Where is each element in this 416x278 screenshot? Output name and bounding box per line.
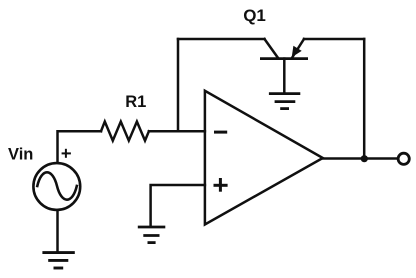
voltage source Vin xyxy=(33,163,80,210)
wire output xyxy=(323,157,397,160)
wire Vin bottom xyxy=(56,210,59,252)
transistor Q1 xyxy=(260,39,308,59)
svg-text:R1: R1 xyxy=(125,93,146,111)
wire top right from Q1 xyxy=(304,38,364,41)
svg-text:Q1: Q1 xyxy=(243,6,266,25)
wire resistor to op-amp inverting input xyxy=(149,130,205,133)
resistor R1 xyxy=(101,122,149,141)
inverting input minus symbol xyxy=(214,131,227,134)
junction dot at output node xyxy=(361,155,368,162)
wire non-inverting input to ground xyxy=(151,185,205,226)
wire feedback vertical xyxy=(177,39,180,131)
wire right vertical feedback xyxy=(363,39,366,159)
ground at Q1 base xyxy=(269,94,300,109)
ground at non-inverting input xyxy=(138,227,166,243)
non-inverting input plus symbol xyxy=(214,178,228,192)
op-amp U1 xyxy=(205,91,323,225)
output terminal xyxy=(398,153,409,164)
wire Q1 base xyxy=(283,59,286,93)
plus polarity mark xyxy=(62,149,71,158)
wire Vin top to resistor xyxy=(58,131,102,162)
ground below Vin xyxy=(42,253,74,268)
svg-text:Vin: Vin xyxy=(8,145,33,163)
wire top left to Q1 xyxy=(178,38,265,41)
